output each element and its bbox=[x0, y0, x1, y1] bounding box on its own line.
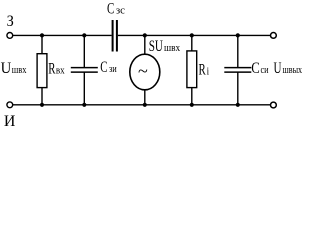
svg-text:швых: швых bbox=[283, 65, 303, 76]
wire: bottom rail (source) bbox=[13, 104, 271, 106]
svg-text:зс: зс bbox=[116, 6, 126, 17]
node A: junction dot top of Rвх bbox=[40, 33, 44, 37]
wire: source bottom lead bbox=[144, 90, 146, 105]
wire: Cси top lead bbox=[237, 35, 239, 67]
wire: top rail left segment (gate side) bbox=[13, 34, 112, 36]
wire: Rвх top lead bbox=[41, 35, 43, 54]
capacitor Cзи top plate bbox=[71, 67, 98, 69]
wire: Ri top lead bbox=[191, 35, 193, 51]
node C: junction dot top of Cзи bbox=[82, 33, 86, 37]
terminal З (gate, top-left) bbox=[7, 33, 13, 39]
capacitor Cси bottom plate bbox=[224, 71, 251, 73]
node B: junction dot bottom of Rвх bbox=[40, 103, 44, 107]
terminal top-right (drain output) bbox=[271, 33, 277, 39]
svg-text:U: U bbox=[1, 60, 12, 77]
resistor Ri bbox=[187, 51, 197, 88]
node E: junction dot top of source bbox=[143, 33, 147, 37]
node I: junction dot top of Cси bbox=[236, 33, 240, 37]
svg-text:i: i bbox=[207, 66, 210, 77]
wire: Ri bottom lead bbox=[191, 88, 193, 105]
svg-text:R: R bbox=[48, 60, 56, 77]
source SUшвх (dependent current source) bbox=[130, 54, 160, 90]
resistor Rвх bbox=[37, 54, 47, 88]
svg-text:С: С bbox=[107, 1, 114, 18]
svg-text:И: И bbox=[4, 113, 16, 130]
svg-text:С: С bbox=[251, 60, 259, 77]
svg-text:~: ~ bbox=[138, 61, 148, 81]
svg-text:вх: вх bbox=[56, 65, 65, 76]
wire: source top lead bbox=[144, 35, 146, 54]
node D: junction dot bottom of Cзи bbox=[82, 103, 86, 107]
svg-text:швх: швх bbox=[164, 43, 180, 54]
terminal И (source, bottom-left) bbox=[7, 102, 13, 108]
svg-text:З: З bbox=[7, 13, 14, 30]
capacitor Cзи bottom plate bbox=[71, 71, 98, 73]
svg-text:R: R bbox=[199, 61, 207, 78]
wire: Cси bottom lead bbox=[237, 72, 239, 105]
wire: Cзи bottom lead bbox=[83, 72, 85, 105]
capacitor Cзс right plate bbox=[116, 20, 118, 52]
svg-text:С: С bbox=[100, 59, 107, 76]
svg-text:зи: зи bbox=[109, 64, 117, 75]
capacitor Cси top plate bbox=[224, 67, 251, 69]
svg-text:си: си bbox=[261, 65, 270, 76]
node G: junction dot top of Ri bbox=[190, 33, 194, 37]
node F: junction dot bottom of source bbox=[143, 103, 147, 107]
svg-text:U: U bbox=[274, 60, 282, 77]
node J: junction dot bottom of Cси bbox=[236, 103, 240, 107]
wire: Cзи top lead bbox=[83, 35, 85, 67]
svg-text:швх: швх bbox=[12, 65, 27, 76]
terminal bottom-right (source output) bbox=[271, 102, 277, 108]
wire: Rвх bottom lead bbox=[41, 88, 43, 105]
capacitor Cзс left plate bbox=[112, 20, 114, 52]
wire: top rail right segment (drain side) bbox=[118, 34, 271, 36]
svg-text:SU: SU bbox=[149, 38, 163, 55]
node H: junction dot bottom of Ri bbox=[190, 103, 194, 107]
